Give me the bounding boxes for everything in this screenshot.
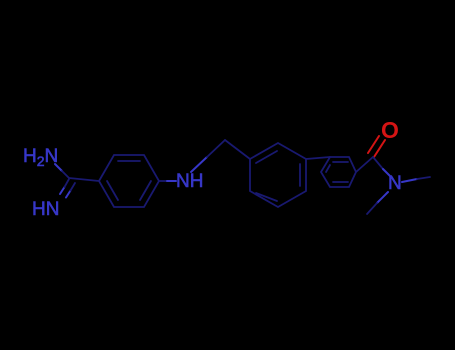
ringB inner aromatic line bottom (333, 181, 348, 183)
ring0 inner aromatic line right-bottom (140, 181, 151, 200)
bond amide N to lower-left methyl (dark half) (367, 203, 377, 214)
bond NH to apex CH2 (bright half near label) (191, 157, 207, 172)
C=O double bond (red, line 1) (374, 140, 385, 157)
benzene ringA (middle) (250, 143, 306, 207)
benzene ring0 (amidinophenyl) (99, 155, 159, 207)
svg-text:NH: NH (176, 171, 203, 192)
svg-text:HN: HN (32, 199, 59, 220)
ring0 inner aromatic line left-bottom (107, 181, 118, 200)
ringA inner aromatic line bottom (256, 193, 277, 201)
bond H2N to amidine C (dark half) (62, 171, 69, 178)
bond amide N to right methyl (bright half) (402, 179, 417, 182)
double bond C=NH (line 2 dark half) (71, 183, 76, 191)
ringB inner aromatic line left (326, 165, 330, 172)
bond amide N to lower-left methyl (bright half) (377, 192, 388, 203)
bond carbonyl C to amide N (dark half) (373, 157, 383, 169)
bond amide N to right methyl (dark half) (417, 177, 430, 179)
bond apex CH2 to ringA TL vertex (225, 140, 250, 159)
biphenyl junction bond ringA TR to ringB TL (306, 157, 330, 159)
bond H2N to amidine C (bright half near N label) (55, 164, 62, 171)
bond ring0 right vertex to NH (dark half) (159, 180, 167, 182)
bond NH to apex CH2 (dark half) (207, 140, 225, 157)
ring0 inner aromatic line top (118, 160, 140, 162)
bond amidine C to ring0 left vertex (69, 178, 99, 181)
ringA inner aromatic line top-left (256, 151, 277, 163)
C=O double bond (red, line 2) (368, 136, 379, 153)
bond ringB R vertex to carbonyl C (356, 157, 373, 172)
double bond C=NH (line 1 dark half) (65, 179, 70, 187)
bond ring0 right vertex to NH (bright half) (167, 180, 176, 182)
svg-text:N: N (388, 173, 402, 194)
double bond C=NH (line 2 bright half) (66, 191, 71, 198)
benzene ringB (right, squashed) (321, 157, 356, 187)
ringA inner aromatic line right (299, 164, 301, 186)
svg-text:O: O (381, 117, 399, 143)
ringB inner aromatic line top (333, 161, 348, 163)
bond carbonyl C to amide N (bright half) (383, 169, 390, 176)
double bond C=NH (line 1 bright half) (60, 187, 65, 194)
